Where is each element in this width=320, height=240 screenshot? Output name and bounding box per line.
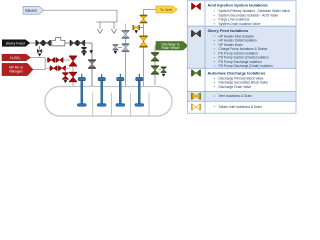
legend icon vent valves [191,93,201,100]
valve acid rail1 B [56,57,64,62]
valve acid rail2 A [50,66,58,71]
valve slurry drain 2 [81,47,86,53]
legend row2 bullets [214,34,273,68]
wire quench drop A [99,22,101,29]
arrow acid drain [64,80,68,83]
svg-text:System Drain Isolation Valve: System Drain Isolation Valve [219,22,261,26]
legend row1 title [208,3,269,8]
wire acid spool down [72,67,74,72]
svg-text:To Vent: To Vent [160,8,172,12]
svg-text:PD Pump Discharge (Drain) Isol: PD Pump Discharge (Drain) Isolation [219,64,273,68]
valve acid rail1 A [47,57,55,62]
valve acid drain [62,72,68,79]
wire vent drain stub [139,27,144,29]
svg-text:H₂SO₄: H₂SO₄ [10,56,21,60]
legend table frame [187,1,296,113]
arrow vent drain [134,30,138,33]
wire hp air feed [33,69,45,71]
wire steam to autoclave [125,52,127,87]
wire slurry drain stub [39,46,41,50]
legend row1 bullets [214,9,290,26]
wire slurry drain stub 2 [83,43,85,47]
flag hp air or nitrogen [2,63,33,75]
vessel autoclave shell [45,87,172,117]
baffle compartment wall 2 [111,93,113,116]
valve steam inlet upper [122,30,130,39]
arrow slurry drain [38,53,42,56]
wire steam header [44,9,118,11]
arrow slurry drain 2 [82,53,86,56]
svg-text:Vent Isolations & Drain: Vent Isolations & Drain [219,94,253,98]
wire heater out [65,42,70,44]
wire discharge to vessel [154,75,156,85]
wire slurry feed in [30,42,36,44]
svg-text:Discharge Drain Valve: Discharge Drain Valve [219,85,252,89]
valve steam drain [113,44,119,50]
valve acid primary spool [69,56,77,67]
legend icon slurry valves [191,30,201,37]
legend icon acid valves [191,3,201,10]
agitator 2 [97,74,106,106]
svg-text:Slurry Feed Isolations: Slurry Feed Isolations [208,28,249,33]
baffle compartment wall 3 [130,93,132,116]
wire vent mid [143,23,145,35]
valve slurry outlet A [70,40,78,46]
legend row3 title [208,70,266,75]
legend row4 entry [214,94,252,98]
wire acid to vessel [72,82,74,86]
wire quench drop B [113,22,115,29]
flag discharge to flash vessel [156,42,188,51]
nozzle funnel A [97,29,102,33]
valve slurry inlet B [43,40,51,46]
wire quench manifold [97,21,118,23]
wire steam drain stub [118,46,123,48]
svg-text:Autoclave Discharge Isolations: Autoclave Discharge Isolations [208,70,266,75]
wire acid rail 1 [45,59,70,61]
wire discharge top [155,46,156,53]
wire acid feed [31,57,46,59]
valve discharge primary [151,52,159,61]
valve discharge drain [161,67,167,73]
heater HP slurry heater [52,38,65,46]
wire vent top [144,10,157,16]
wire slurry riser lower [91,69,93,87]
legend row3 bullets [214,76,268,89]
wire steam drop [125,24,127,31]
legend row5 entry [214,105,262,109]
wire acid rail 2 [45,67,70,69]
wire slurry to heater [50,42,52,44]
valve PD pump suction [88,59,96,68]
wire steam inter-valve [125,39,127,44]
valve slurry drain [37,49,42,53]
wire discharge drain stub [158,69,161,71]
flag sulphuric acid [2,54,31,61]
wire slurry riser upper [91,43,93,60]
valve vent drain [133,25,140,30]
legend icon steam valves [191,104,201,111]
valve vent lower [139,36,147,48]
valve acid injection lance [69,72,77,82]
svg-text:Flash Vessel: Flash Vessel [161,46,179,50]
flag slurry feed [2,40,30,47]
valve slurry inlet A [36,40,44,46]
arrow discharge drain [162,74,166,77]
valve vent upper [140,15,148,24]
wire acid down [44,58,46,70]
arrow steam drain [114,51,118,54]
nozzle funnel B [111,29,116,33]
wire discharge inter-valve [154,61,156,65]
svg-text:Steam Inlet Isolations & Drain: Steam Inlet Isolations & Drain [219,105,263,109]
wire acid drain stub [64,68,66,72]
agitator 1 [77,74,86,106]
flag steam supply [23,6,44,14]
baffle compartment wall 4 [148,93,150,116]
valve steam inlet lower [122,43,130,52]
wire steam riser [116,10,118,22]
svg-text:Nitrogen: Nitrogen [9,70,22,74]
legend row2 title [208,28,249,33]
legend icon discharge valves [191,70,201,77]
agitator 4 [135,74,144,106]
svg-text:Acid Injection System Isolatio: Acid Injection System Isolations: [208,3,269,8]
svg-text:Steam: Steam [25,8,38,13]
agitator 3 [116,74,125,106]
valve slurry outlet B [77,40,85,46]
flag to vent [156,6,177,13]
wire vent to autoclave [143,48,145,87]
svg-text:Slurry Feed: Slurry Feed [6,41,25,45]
valve discharge secondary [151,65,159,74]
wire slurry to riser [85,42,92,44]
valve acid rail2 B [58,66,66,71]
arrow slurry riser drain [89,50,93,53]
baffle compartment wall 1 [92,93,94,116]
